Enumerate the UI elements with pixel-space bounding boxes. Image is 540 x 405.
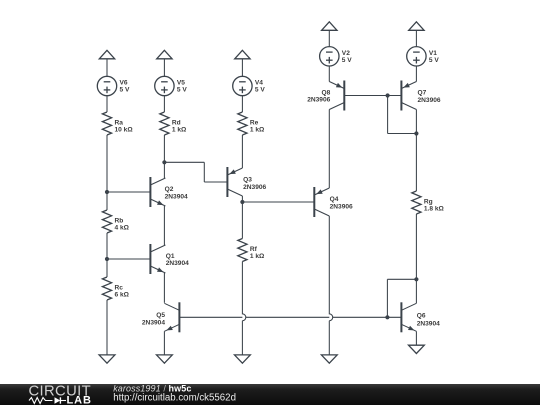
transistor Q2 2N3904 NPN bbox=[150, 177, 188, 207]
wire Q6 base loop right bbox=[387, 278, 416, 280]
svg-text:5 V: 5 V bbox=[120, 87, 130, 94]
svg-text:V2: V2 bbox=[342, 50, 350, 57]
svg-text:1 kΩ: 1 kΩ bbox=[250, 126, 265, 133]
svg-text:V1: V1 bbox=[429, 50, 437, 57]
voltage source V4 bbox=[233, 76, 266, 95]
voltage source V2 bbox=[320, 47, 353, 66]
voltage source V1 bbox=[407, 47, 440, 66]
wire node to Rf bbox=[241, 202, 243, 239]
transistor Q1 2N3904 NPN bbox=[150, 244, 189, 274]
resistor Rd 1 kOhm bbox=[160, 112, 187, 135]
svg-text:Re: Re bbox=[250, 119, 259, 126]
power VCC arrow for V4 bbox=[235, 50, 250, 59]
resistor Rc 6 kOhm bbox=[102, 277, 129, 300]
svg-text:Rc: Rc bbox=[115, 284, 124, 291]
wire node toward Q3 bbox=[164, 161, 204, 163]
wire VCC arrow to V1 bbox=[415, 30, 417, 46]
wire Rd to node bbox=[163, 135, 165, 162]
wire node to Q2 base bbox=[107, 191, 150, 193]
wire VCC arrow to V5 bbox=[163, 59, 165, 77]
svg-text:Rg: Rg bbox=[424, 198, 433, 205]
wire node to Q1 base bbox=[107, 258, 150, 260]
svg-text:Q4: Q4 bbox=[330, 196, 339, 203]
svg-text:4 kΩ: 4 kΩ bbox=[115, 224, 130, 231]
svg-text:Rf: Rf bbox=[250, 246, 258, 253]
transistor Q8 2N3906 PNP bbox=[307, 81, 344, 111]
wire V6 to Ra bbox=[106, 96, 108, 112]
svg-text:Rb: Rb bbox=[115, 217, 124, 224]
svg-text:1.8 kΩ: 1.8 kΩ bbox=[424, 205, 445, 212]
power VCC arrow for V1 bbox=[409, 22, 424, 31]
svg-text:1 kΩ: 1 kΩ bbox=[172, 126, 187, 133]
svg-text:2N3906: 2N3906 bbox=[418, 97, 441, 104]
svg-text:2N3906: 2N3906 bbox=[330, 203, 353, 210]
wire V1 to Q7 emitter bbox=[415, 66, 417, 82]
wire Q5 base to Q6 base bus bbox=[179, 316, 401, 318]
svg-text:Q5: Q5 bbox=[156, 312, 165, 319]
svg-text:Q1: Q1 bbox=[166, 253, 175, 260]
wire node to Q4 base bbox=[242, 201, 314, 203]
wire VCC arrow to V2 bbox=[328, 30, 330, 46]
svg-text:5 V: 5 V bbox=[429, 57, 439, 64]
svg-text:Q7: Q7 bbox=[418, 90, 427, 97]
wire VCC arrow to V6 bbox=[106, 59, 108, 77]
wire Q8 base to Q7 base bbox=[344, 95, 401, 97]
resistor Rf 1 kOhm bbox=[238, 239, 265, 262]
svg-text:5 V: 5 V bbox=[342, 57, 352, 64]
wire bend down bbox=[203, 162, 205, 182]
node Q8-Q7 base junction bbox=[386, 93, 390, 97]
svg-text:Q6: Q6 bbox=[417, 313, 426, 320]
svg-text:Q2: Q2 bbox=[165, 186, 174, 193]
node Ra-Rb-Q2 base junction bbox=[105, 190, 109, 194]
resistor Re 1 kOhm bbox=[238, 112, 265, 135]
ground Q4 rail bbox=[321, 355, 337, 363]
resistor Ra 10 kOhm bbox=[102, 112, 133, 135]
CircuitLab logo resistor-diode glyph bbox=[29, 397, 66, 403]
transistor Q5 2N3904 NPN bbox=[142, 302, 180, 332]
voltage source V5 bbox=[155, 76, 188, 95]
svg-text:V5: V5 bbox=[177, 80, 185, 87]
svg-text:Rd: Rd bbox=[172, 119, 181, 126]
wire Q1 emitter to Q5 collector bbox=[163, 273, 165, 303]
node Q6 collector-base tie bbox=[414, 277, 418, 281]
wire to Q7 collector bbox=[388, 133, 417, 135]
ground left rail bbox=[99, 355, 115, 363]
transistor Q3 2N3906 PNP bbox=[227, 167, 266, 197]
svg-text:1 kΩ: 1 kΩ bbox=[250, 253, 265, 260]
wire Rg to Q6 collector bbox=[415, 214, 417, 303]
wire Rc to ground bbox=[106, 300, 108, 355]
wire V4 to Re bbox=[241, 96, 243, 112]
wire Q2 emitter to Q1 collector bbox=[163, 206, 165, 245]
transistor Q7 2N3906 PNP bbox=[401, 81, 441, 111]
wire Re to Q3 emitter bbox=[241, 135, 243, 168]
node Q3 collector junction bbox=[240, 200, 244, 204]
svg-text:V6: V6 bbox=[120, 80, 128, 87]
svg-text:5 V: 5 V bbox=[255, 87, 265, 94]
resistor Rb 4 kOhm bbox=[102, 210, 129, 233]
wire Q4 collector to ground with hop bbox=[329, 216, 332, 355]
svg-text:Ra: Ra bbox=[115, 119, 124, 126]
power VCC arrow for V2 bbox=[322, 22, 337, 31]
svg-text:LAB: LAB bbox=[67, 395, 92, 405]
svg-text:5 V: 5 V bbox=[177, 87, 187, 94]
svg-text:http://circuitlab.com/ck5562d: http://circuitlab.com/ck5562d bbox=[113, 392, 236, 403]
wire Ra to Rb bbox=[106, 135, 108, 210]
svg-text:6 kΩ: 6 kΩ bbox=[115, 291, 130, 298]
wire V5 to Rd bbox=[163, 96, 165, 112]
wire Rf to ground with hop bbox=[242, 262, 245, 355]
svg-text:10 kΩ: 10 kΩ bbox=[115, 126, 134, 133]
node Rd-Q2 collector junction bbox=[162, 160, 166, 164]
node Q6 base junction bbox=[385, 315, 389, 319]
svg-text:2N3906: 2N3906 bbox=[243, 184, 266, 191]
voltage source V6 bbox=[97, 76, 130, 95]
svg-text:Q8: Q8 bbox=[322, 89, 331, 96]
wire base node down bbox=[387, 96, 389, 134]
ground Q6 emitter bbox=[409, 345, 425, 353]
svg-text:2N3904: 2N3904 bbox=[166, 260, 189, 267]
node Q7 collector-base tie bbox=[414, 131, 418, 135]
wire to Q3 base bbox=[204, 181, 227, 183]
wire node to Q2 collector bbox=[163, 162, 165, 178]
wire Q7 collector to Rg bbox=[415, 110, 417, 192]
wire V2 to Q8 emitter bbox=[328, 66, 330, 82]
transistor Q4 2N3906 PNP bbox=[314, 187, 353, 217]
wire Q6 emitter to ground bbox=[415, 331, 417, 345]
node Rb-Rc-Q1 base junction bbox=[105, 257, 109, 261]
wire Q4 emitter to Q8 collector bbox=[328, 110, 330, 189]
wire Q3 collector to node bbox=[241, 196, 243, 202]
wire VCC arrow to V4 bbox=[241, 59, 243, 77]
power VCC arrow for V5 bbox=[157, 50, 172, 59]
svg-text:2N3904: 2N3904 bbox=[142, 319, 165, 326]
svg-text:Q3: Q3 bbox=[243, 177, 252, 184]
svg-text:V4: V4 bbox=[255, 80, 263, 87]
wire Rb to Rc bbox=[106, 233, 108, 277]
svg-text:2N3906: 2N3906 bbox=[307, 97, 330, 104]
ground Q5 emitter bbox=[157, 355, 173, 363]
wire Q6 base loop up bbox=[386, 279, 388, 317]
resistor Rg 1.8 kOhm bbox=[412, 191, 445, 214]
svg-text:2N3904: 2N3904 bbox=[417, 320, 440, 327]
wire Q5 emitter to ground bbox=[163, 331, 165, 355]
svg-text:2N3904: 2N3904 bbox=[165, 193, 188, 200]
transistor Q6 2N3904 NPN bbox=[401, 302, 440, 332]
power VCC arrow for V6 bbox=[99, 50, 114, 59]
ground Rf rail bbox=[235, 355, 251, 363]
